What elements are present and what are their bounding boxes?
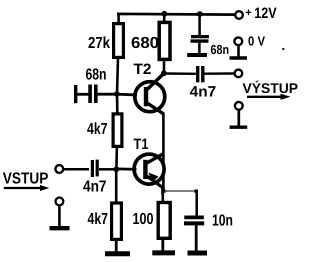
svg-text:10n: 10n bbox=[212, 213, 233, 230]
svg-text:T1: T1 bbox=[134, 136, 149, 153]
svg-text:68n: 68n bbox=[86, 67, 107, 84]
svg-text:68n: 68n bbox=[211, 42, 230, 57]
svg-text:VÝSTUP: VÝSTUP bbox=[243, 80, 299, 96]
svg-text:+: + bbox=[245, 7, 251, 19]
svg-text:0 V: 0 V bbox=[248, 33, 265, 48]
svg-text:4n7: 4n7 bbox=[190, 83, 217, 100]
svg-text:T2: T2 bbox=[134, 61, 152, 78]
svg-text:4k7: 4k7 bbox=[87, 121, 108, 138]
svg-text:680: 680 bbox=[131, 35, 159, 52]
svg-text:4k7: 4k7 bbox=[88, 211, 109, 228]
svg-text:VSTUP: VSTUP bbox=[3, 171, 49, 188]
svg-text:100: 100 bbox=[133, 211, 154, 228]
svg-text:27k: 27k bbox=[88, 35, 110, 52]
svg-text:4n7: 4n7 bbox=[83, 178, 107, 195]
svg-text:12V: 12V bbox=[254, 5, 276, 22]
